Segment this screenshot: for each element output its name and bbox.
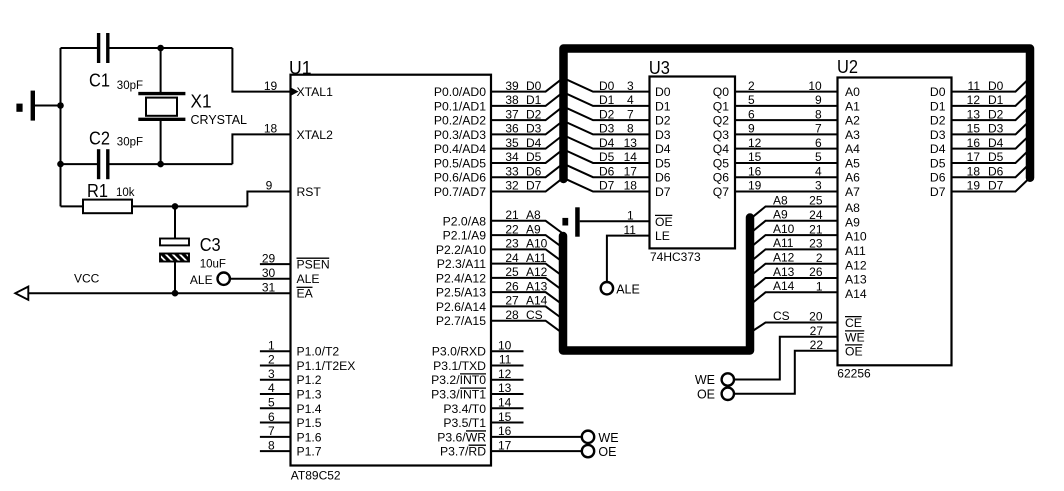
svg-text:A14: A14 bbox=[845, 287, 867, 301]
svg-text:25: 25 bbox=[809, 194, 823, 208]
svg-text:CRYSTAL: CRYSTAL bbox=[191, 113, 248, 127]
svg-text:A8: A8 bbox=[845, 201, 860, 215]
svg-text:D5: D5 bbox=[526, 150, 542, 164]
svg-text:38: 38 bbox=[505, 93, 519, 107]
svg-text:A0: A0 bbox=[845, 85, 860, 99]
svg-text:D1: D1 bbox=[930, 99, 946, 113]
svg-text:D2: D2 bbox=[599, 107, 615, 121]
svg-text:16: 16 bbox=[498, 424, 512, 438]
svg-text:A9: A9 bbox=[526, 222, 541, 236]
svg-text:P0.4/AD4: P0.4/AD4 bbox=[434, 142, 486, 156]
svg-text:OE: OE bbox=[697, 387, 715, 401]
svg-text:2: 2 bbox=[816, 251, 823, 265]
svg-text:P2.0/A8: P2.0/A8 bbox=[443, 214, 487, 228]
svg-text:17: 17 bbox=[498, 438, 512, 452]
svg-text:7: 7 bbox=[627, 107, 634, 121]
svg-text:36: 36 bbox=[505, 122, 519, 136]
svg-text:15: 15 bbox=[748, 150, 762, 164]
svg-text:PSEN: PSEN bbox=[297, 258, 330, 272]
svg-text:D2: D2 bbox=[988, 107, 1004, 121]
svg-text:ALE: ALE bbox=[297, 272, 320, 286]
svg-text:P3.4/T0: P3.4/T0 bbox=[443, 402, 486, 416]
svg-text:12: 12 bbox=[498, 367, 512, 381]
svg-text:P0.2/AD2: P0.2/AD2 bbox=[434, 114, 486, 128]
svg-text:26: 26 bbox=[505, 279, 519, 293]
svg-text:P1.4: P1.4 bbox=[297, 402, 322, 416]
svg-text:D4: D4 bbox=[526, 136, 542, 150]
svg-text:P3.0/RXD: P3.0/RXD bbox=[432, 345, 486, 359]
svg-text:P1.2: P1.2 bbox=[297, 373, 322, 387]
svg-text:A9: A9 bbox=[845, 215, 860, 229]
svg-text:OE: OE bbox=[655, 215, 673, 229]
svg-text:20: 20 bbox=[809, 310, 823, 324]
svg-text:D3: D3 bbox=[599, 122, 615, 136]
svg-text:9: 9 bbox=[815, 93, 822, 107]
svg-text:D6: D6 bbox=[599, 164, 615, 178]
svg-text:D0: D0 bbox=[655, 85, 671, 99]
svg-text:D2: D2 bbox=[930, 114, 946, 128]
svg-text:D5: D5 bbox=[930, 156, 946, 170]
svg-text:Q1: Q1 bbox=[713, 99, 729, 113]
svg-text:D0: D0 bbox=[988, 79, 1004, 93]
svg-text:A14: A14 bbox=[526, 294, 548, 308]
svg-text:D6: D6 bbox=[930, 171, 946, 185]
svg-text:P2.3/A11: P2.3/A11 bbox=[437, 257, 486, 271]
svg-text:U1: U1 bbox=[289, 57, 312, 78]
svg-text:18: 18 bbox=[264, 122, 278, 136]
svg-text:4: 4 bbox=[815, 164, 822, 178]
svg-text:12: 12 bbox=[967, 93, 981, 107]
svg-text:WE: WE bbox=[845, 330, 865, 344]
svg-text:3: 3 bbox=[627, 79, 634, 93]
svg-text:P0.5/AD5: P0.5/AD5 bbox=[434, 156, 486, 170]
svg-text:A13: A13 bbox=[526, 279, 548, 293]
svg-text:D3: D3 bbox=[655, 128, 671, 142]
svg-text:C3: C3 bbox=[200, 235, 221, 255]
svg-text:18: 18 bbox=[967, 164, 981, 178]
svg-text:1: 1 bbox=[816, 280, 823, 294]
svg-text:P2.5/A13: P2.5/A13 bbox=[436, 286, 486, 300]
svg-text:A2: A2 bbox=[845, 114, 860, 128]
svg-text:A10: A10 bbox=[526, 237, 548, 251]
svg-text:P1.1/T2EX: P1.1/T2EX bbox=[297, 359, 356, 373]
svg-text:OE: OE bbox=[598, 445, 616, 459]
svg-text:Q3: Q3 bbox=[713, 128, 729, 142]
svg-text:A4: A4 bbox=[845, 142, 860, 156]
svg-text:ALE: ALE bbox=[190, 273, 213, 287]
svg-text:Q2: Q2 bbox=[713, 114, 729, 128]
svg-text:11: 11 bbox=[623, 223, 636, 237]
svg-text:62256: 62256 bbox=[837, 367, 871, 381]
svg-text:D1: D1 bbox=[599, 93, 615, 107]
svg-text:A11: A11 bbox=[845, 244, 866, 258]
svg-text:P3.5/T1: P3.5/T1 bbox=[443, 416, 486, 430]
svg-text:39: 39 bbox=[505, 79, 519, 93]
svg-text:WE: WE bbox=[598, 431, 618, 445]
svg-text:11: 11 bbox=[968, 79, 981, 93]
svg-text:D6: D6 bbox=[526, 164, 542, 178]
svg-text:35: 35 bbox=[505, 136, 519, 150]
svg-text:P3.1/TXD: P3.1/TXD bbox=[433, 359, 486, 373]
svg-text:21: 21 bbox=[505, 208, 519, 222]
svg-text:A14: A14 bbox=[773, 279, 795, 293]
svg-text:P1.3: P1.3 bbox=[297, 388, 322, 402]
svg-text:C1: C1 bbox=[89, 71, 110, 91]
svg-text:A6: A6 bbox=[845, 171, 860, 185]
svg-text:D7: D7 bbox=[655, 185, 671, 199]
svg-text:CS: CS bbox=[773, 309, 790, 323]
svg-text:22: 22 bbox=[810, 338, 824, 352]
svg-text:8: 8 bbox=[268, 438, 275, 452]
svg-text:7: 7 bbox=[815, 122, 822, 136]
svg-text:CS: CS bbox=[526, 308, 543, 322]
svg-text:29: 29 bbox=[262, 251, 276, 265]
svg-text:D3: D3 bbox=[988, 122, 1004, 136]
svg-text:LE: LE bbox=[655, 229, 670, 243]
svg-text:10k: 10k bbox=[116, 187, 135, 199]
svg-text:AT89C52: AT89C52 bbox=[291, 469, 341, 483]
svg-text:D0: D0 bbox=[526, 79, 542, 93]
svg-text:Q7: Q7 bbox=[713, 185, 729, 199]
svg-text:16: 16 bbox=[748, 164, 762, 178]
svg-text:D0: D0 bbox=[930, 85, 946, 99]
svg-text:D6: D6 bbox=[655, 171, 671, 185]
svg-text:P0.3/AD3: P0.3/AD3 bbox=[434, 128, 486, 142]
svg-text:X1: X1 bbox=[191, 92, 212, 112]
svg-text:P0.7/AD7: P0.7/AD7 bbox=[434, 185, 486, 199]
svg-text:P1.5: P1.5 bbox=[297, 416, 322, 430]
svg-text:CE: CE bbox=[845, 316, 862, 330]
svg-text:8: 8 bbox=[627, 122, 634, 136]
svg-text:A12: A12 bbox=[526, 265, 548, 279]
svg-text:19: 19 bbox=[748, 179, 762, 193]
svg-text:A5: A5 bbox=[845, 156, 860, 170]
svg-text:Q4: Q4 bbox=[713, 142, 729, 156]
svg-text:15: 15 bbox=[967, 122, 981, 136]
svg-text:4: 4 bbox=[627, 93, 634, 107]
svg-text:11: 11 bbox=[499, 353, 512, 367]
svg-text:P2.7/A15: P2.7/A15 bbox=[436, 314, 486, 328]
svg-text:10uF: 10uF bbox=[200, 258, 226, 270]
svg-text:32: 32 bbox=[505, 179, 519, 193]
svg-text:13: 13 bbox=[624, 136, 638, 150]
svg-text:17: 17 bbox=[967, 150, 981, 164]
svg-text:D3: D3 bbox=[526, 122, 542, 136]
svg-text:12: 12 bbox=[748, 136, 762, 150]
svg-text:3: 3 bbox=[268, 367, 275, 381]
svg-text:C2: C2 bbox=[89, 128, 110, 148]
svg-text:P0.0/AD0: P0.0/AD0 bbox=[434, 85, 486, 99]
svg-text:1: 1 bbox=[627, 209, 634, 223]
svg-text:6: 6 bbox=[268, 410, 275, 424]
svg-text:Q5: Q5 bbox=[713, 156, 729, 170]
svg-text:P2.2/A10: P2.2/A10 bbox=[436, 243, 486, 257]
svg-text:8: 8 bbox=[815, 107, 822, 121]
svg-text:VCC: VCC bbox=[74, 272, 100, 286]
svg-text:D6: D6 bbox=[988, 164, 1004, 178]
svg-text:P3.3/INT1: P3.3/INT1 bbox=[431, 388, 486, 402]
svg-text:5: 5 bbox=[748, 93, 755, 107]
svg-text:4: 4 bbox=[268, 381, 275, 395]
svg-text:27: 27 bbox=[505, 294, 519, 308]
svg-text:D0: D0 bbox=[599, 79, 615, 93]
svg-text:37: 37 bbox=[505, 107, 519, 121]
svg-text:P3.6/WR: P3.6/WR bbox=[437, 430, 486, 444]
svg-text:XTAL1: XTAL1 bbox=[297, 85, 334, 99]
svg-text:A12: A12 bbox=[845, 258, 867, 272]
svg-text:33: 33 bbox=[505, 164, 519, 178]
svg-text:D2: D2 bbox=[655, 114, 671, 128]
svg-text:A10: A10 bbox=[773, 222, 795, 236]
svg-text:3: 3 bbox=[815, 179, 822, 193]
svg-text:2: 2 bbox=[748, 79, 755, 93]
svg-text:R1: R1 bbox=[87, 181, 108, 201]
svg-text:P3.2/INT0: P3.2/INT0 bbox=[431, 373, 486, 387]
svg-text:D7: D7 bbox=[599, 179, 615, 193]
svg-text:D2: D2 bbox=[526, 107, 542, 121]
svg-text:26: 26 bbox=[809, 265, 823, 279]
svg-text:A1: A1 bbox=[845, 99, 860, 113]
svg-text:Q0: Q0 bbox=[713, 85, 729, 99]
svg-text:23: 23 bbox=[505, 237, 519, 251]
svg-text:1: 1 bbox=[268, 338, 275, 352]
svg-text:21: 21 bbox=[809, 222, 823, 236]
svg-text:14: 14 bbox=[624, 150, 638, 164]
svg-text:27: 27 bbox=[810, 324, 824, 338]
svg-text:6: 6 bbox=[815, 136, 822, 150]
svg-text:P3.7/RD: P3.7/RD bbox=[440, 445, 486, 459]
svg-text:EA: EA bbox=[297, 287, 314, 301]
svg-text:9: 9 bbox=[748, 122, 755, 136]
svg-text:9: 9 bbox=[266, 179, 273, 193]
svg-text:D5: D5 bbox=[988, 150, 1004, 164]
svg-text:A12: A12 bbox=[773, 251, 795, 265]
svg-text:18: 18 bbox=[624, 179, 638, 193]
svg-text:28: 28 bbox=[505, 308, 519, 322]
svg-text:D4: D4 bbox=[930, 142, 946, 156]
svg-text:D7: D7 bbox=[988, 179, 1004, 193]
svg-text:A9: A9 bbox=[773, 208, 788, 222]
svg-text:10: 10 bbox=[808, 79, 822, 93]
svg-text:D7: D7 bbox=[526, 179, 542, 193]
svg-text:10: 10 bbox=[498, 338, 512, 352]
svg-text:19: 19 bbox=[967, 179, 981, 193]
svg-text:Q6: Q6 bbox=[713, 171, 729, 185]
svg-text:24: 24 bbox=[505, 251, 519, 265]
svg-text:D4: D4 bbox=[988, 136, 1004, 150]
svg-text:D1: D1 bbox=[526, 93, 542, 107]
svg-text:P2.4/A12: P2.4/A12 bbox=[436, 271, 486, 285]
svg-text:30: 30 bbox=[262, 266, 276, 280]
svg-text:P0.6/AD6: P0.6/AD6 bbox=[434, 171, 486, 185]
svg-text:A10: A10 bbox=[845, 230, 867, 244]
svg-text:A13: A13 bbox=[773, 265, 795, 279]
svg-text:P0.1/AD1: P0.1/AD1 bbox=[434, 99, 486, 113]
svg-text:P1.6: P1.6 bbox=[297, 430, 322, 444]
svg-text:31: 31 bbox=[262, 280, 276, 294]
svg-text:D4: D4 bbox=[655, 142, 671, 156]
svg-text:D4: D4 bbox=[599, 136, 615, 150]
svg-text:7: 7 bbox=[268, 424, 275, 438]
svg-text:25: 25 bbox=[505, 265, 519, 279]
svg-text:P2.1/A9: P2.1/A9 bbox=[443, 229, 487, 243]
svg-text:30pF: 30pF bbox=[117, 136, 143, 148]
svg-text:17: 17 bbox=[624, 164, 638, 178]
svg-text:16: 16 bbox=[967, 136, 981, 150]
svg-text:A3: A3 bbox=[845, 128, 860, 142]
svg-text:P2.6/A14: P2.6/A14 bbox=[436, 300, 486, 314]
svg-text:XTAL2: XTAL2 bbox=[297, 128, 334, 142]
svg-text:A11: A11 bbox=[526, 251, 547, 265]
svg-text:5: 5 bbox=[268, 395, 275, 409]
svg-text:15: 15 bbox=[498, 410, 512, 424]
svg-text:A7: A7 bbox=[845, 185, 860, 199]
svg-text:5: 5 bbox=[815, 150, 822, 164]
svg-text:D3: D3 bbox=[930, 128, 946, 142]
svg-text:74HC373: 74HC373 bbox=[650, 250, 701, 264]
svg-text:P1.0/T2: P1.0/T2 bbox=[297, 345, 340, 359]
svg-text:P1.7: P1.7 bbox=[297, 445, 322, 459]
svg-text:2: 2 bbox=[268, 353, 275, 367]
svg-text:D5: D5 bbox=[599, 150, 615, 164]
svg-text:A8: A8 bbox=[526, 208, 541, 222]
svg-text:U3: U3 bbox=[649, 57, 670, 78]
svg-text:RST: RST bbox=[297, 185, 322, 199]
svg-text:A8: A8 bbox=[773, 193, 788, 207]
svg-text:OE: OE bbox=[845, 344, 863, 358]
svg-text:23: 23 bbox=[809, 237, 823, 251]
svg-text:30pF: 30pF bbox=[117, 80, 143, 92]
svg-text:34: 34 bbox=[505, 150, 519, 164]
svg-text:ALE: ALE bbox=[616, 283, 640, 297]
svg-text:24: 24 bbox=[809, 208, 823, 222]
svg-text:A13: A13 bbox=[845, 273, 867, 287]
svg-text:13: 13 bbox=[967, 107, 981, 121]
svg-text:D5: D5 bbox=[655, 156, 671, 170]
svg-text:14: 14 bbox=[498, 395, 512, 409]
svg-text:22: 22 bbox=[505, 222, 519, 236]
svg-text:U2: U2 bbox=[837, 56, 858, 77]
svg-text:13: 13 bbox=[498, 381, 512, 395]
svg-text:D7: D7 bbox=[930, 185, 946, 199]
svg-text:A11: A11 bbox=[773, 236, 794, 250]
svg-text:WE: WE bbox=[695, 373, 715, 387]
svg-text:D1: D1 bbox=[655, 99, 671, 113]
svg-text:6: 6 bbox=[748, 107, 755, 121]
svg-text:D1: D1 bbox=[988, 93, 1004, 107]
svg-text:19: 19 bbox=[264, 79, 278, 93]
